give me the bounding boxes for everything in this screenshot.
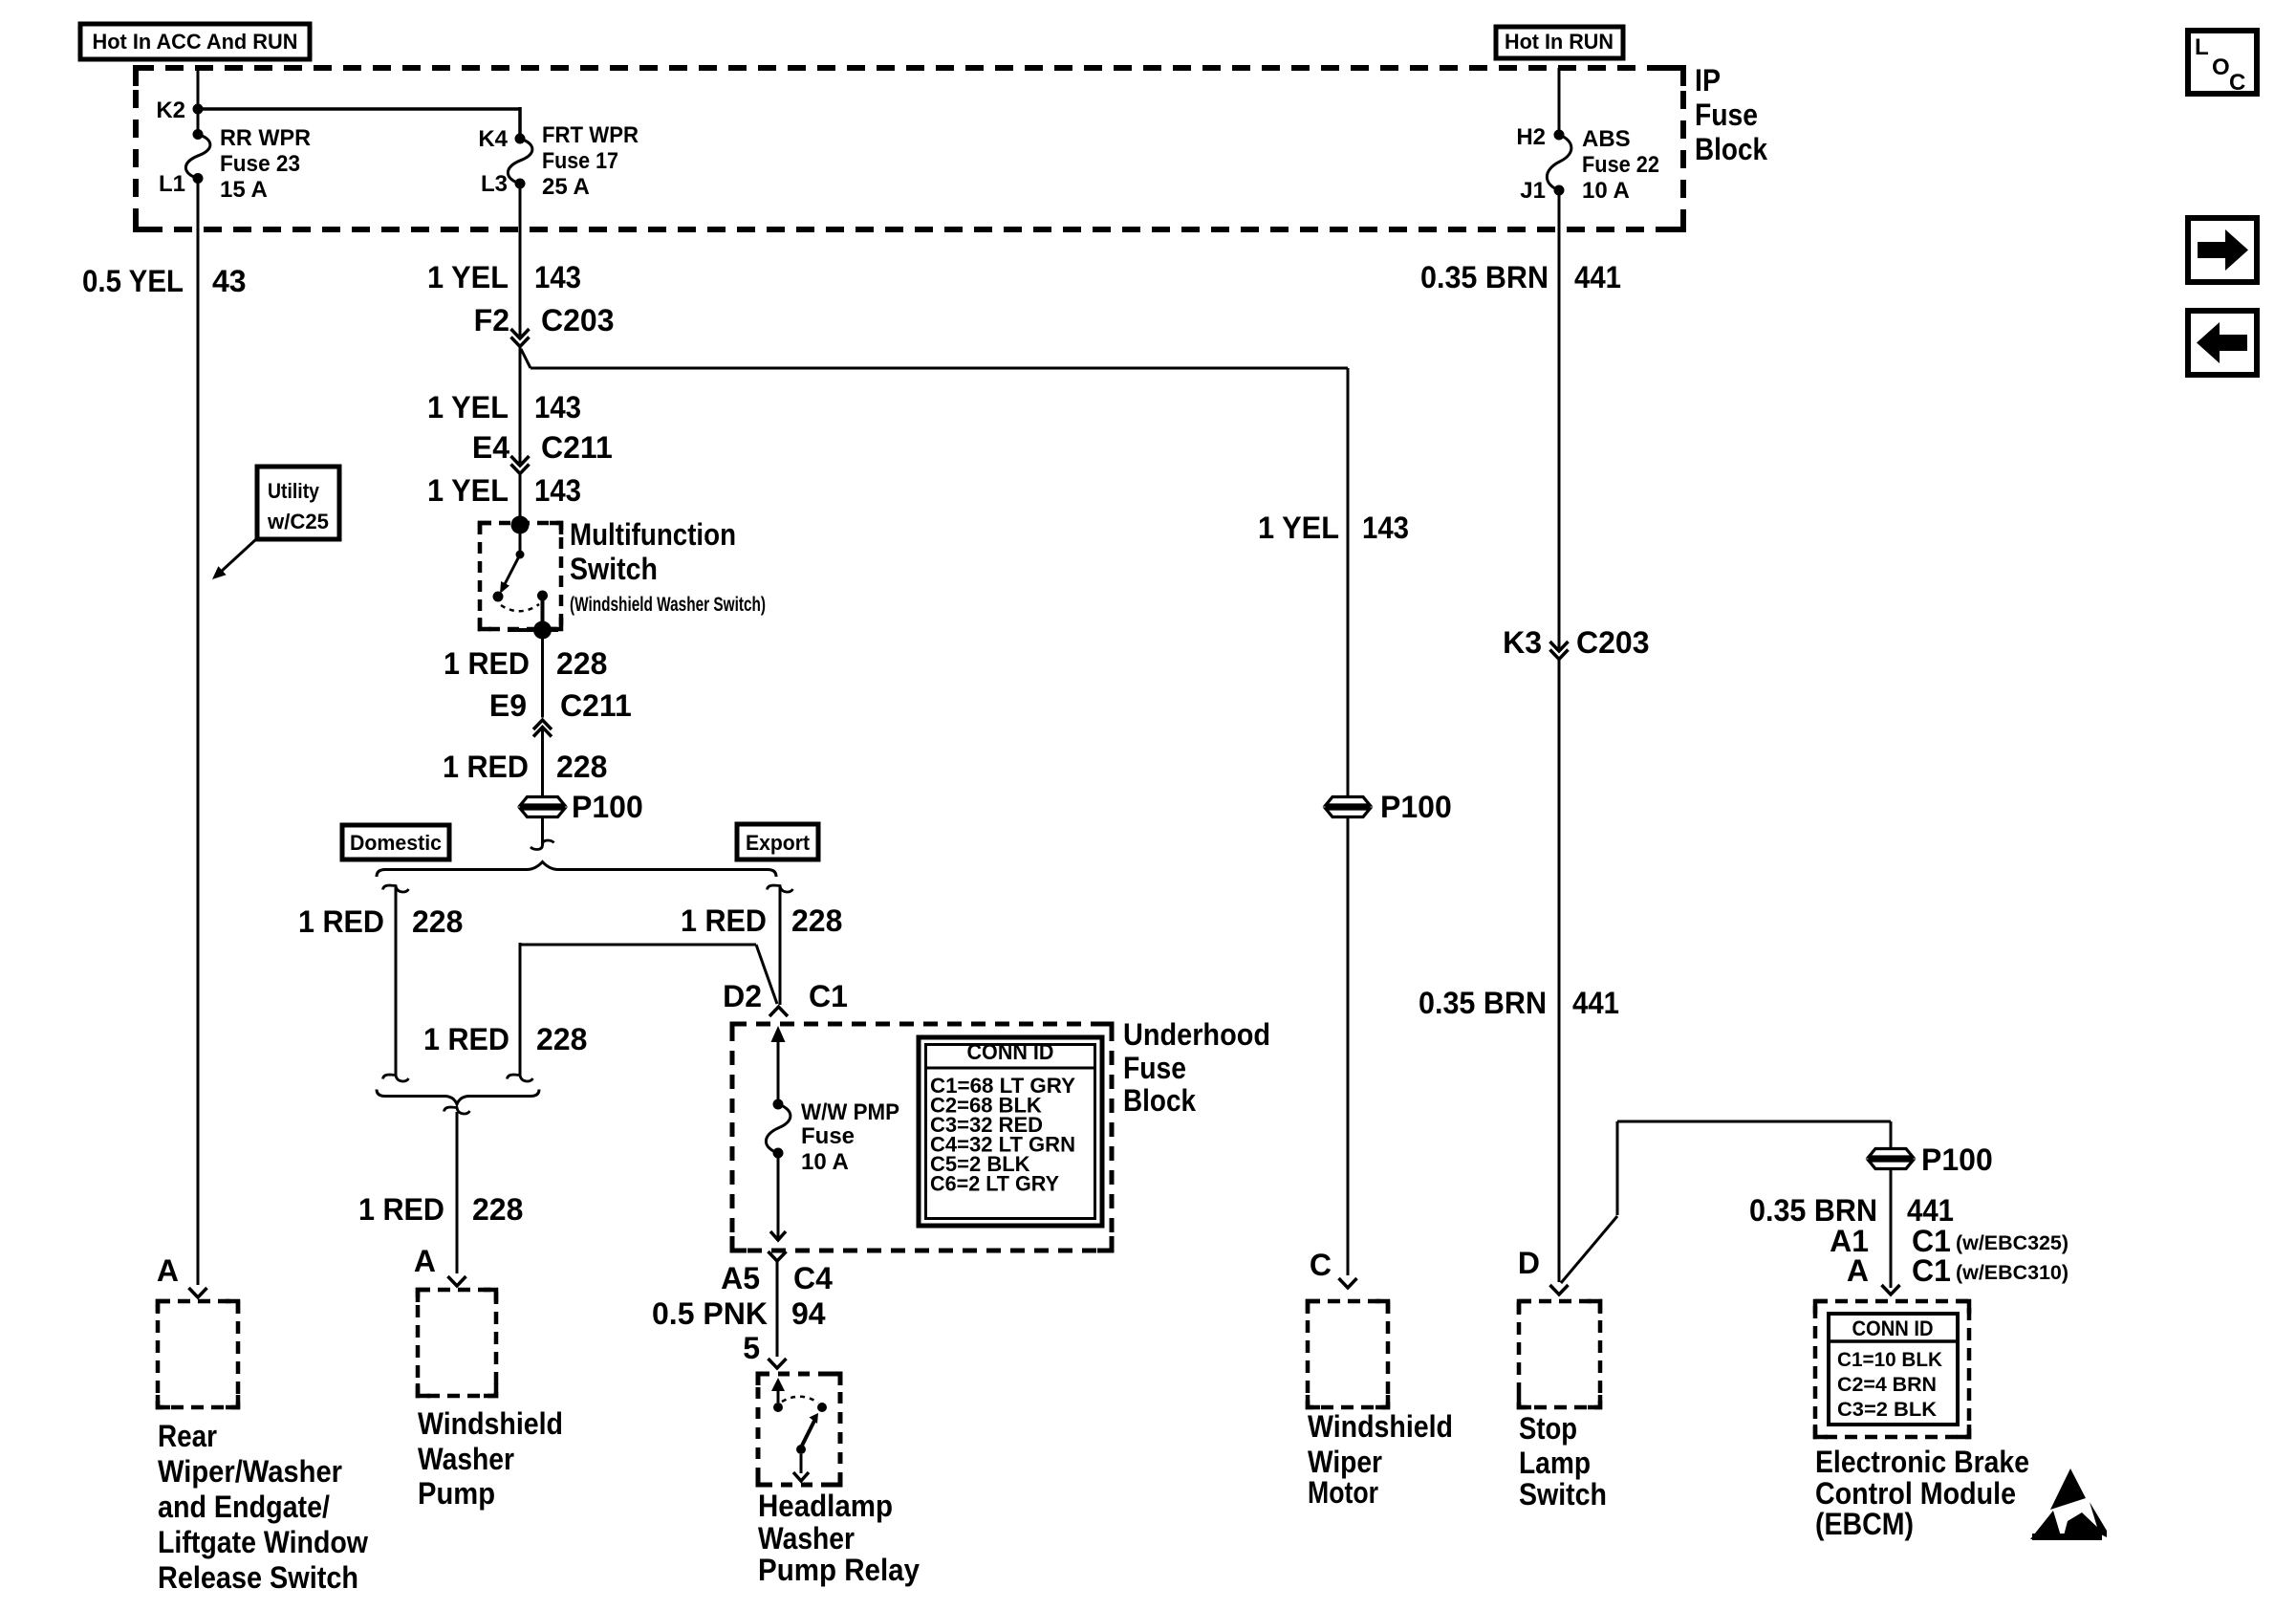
wire: jumper K2 to K4	[198, 107, 520, 111]
wire below P100 with end hook	[541, 817, 544, 845]
svg-text:441: 441	[1907, 1193, 1954, 1228]
grommet P100 on wiper motor feed	[1326, 797, 1370, 806]
wire: 0.5 PNK 94 to headlamp washer pump relay	[776, 1261, 779, 1357]
svg-text:Rear: Rear	[158, 1419, 217, 1453]
wire: 1 RED 228 to grommet P100	[541, 728, 544, 797]
svg-text:0.35 BRN: 0.35 BRN	[1749, 1193, 1877, 1228]
svg-text:E9: E9	[489, 688, 527, 723]
svg-text:Hot In RUN: Hot In RUN	[1505, 30, 1614, 54]
svg-text:Block: Block	[1695, 132, 1767, 166]
legend LOC box	[2188, 31, 2257, 94]
svg-text:1 RED: 1 RED	[681, 903, 767, 938]
relay output wire with down arrow	[800, 1454, 803, 1473]
svg-text:0.35 BRN: 0.35 BRN	[1419, 986, 1547, 1020]
svg-text:10 A: 10 A	[801, 1149, 849, 1175]
svg-text:(w/EBC325): (w/EBC325)	[1956, 1232, 2069, 1254]
svg-text:Wiper/Washer: Wiper/Washer	[158, 1454, 342, 1489]
wire: 1 YEL 143 from L3 down to connector C203	[519, 184, 522, 336]
svg-text:1 YEL: 1 YEL	[427, 260, 509, 294]
svg-text:228: 228	[791, 903, 842, 938]
svg-text:w/C25: w/C25	[267, 510, 329, 533]
svg-text:Headlamp: Headlamp	[758, 1489, 893, 1523]
node K2	[193, 104, 204, 115]
wire: 0.35 BRN 441 to EBCM	[1890, 1169, 1893, 1288]
svg-text:ABS: ABS	[1582, 126, 1631, 152]
svg-text:0.5 YEL: 0.5 YEL	[82, 264, 184, 298]
svg-text:L1: L1	[159, 171, 185, 197]
ESD sensitive device icon	[2050, 1469, 2086, 1510]
switch pole wire	[519, 525, 522, 555]
svg-text:H2: H2	[1516, 124, 1546, 150]
connector chevron into wiper motor	[1339, 1278, 1357, 1288]
wire from fuse to bottom of underhood box	[777, 1153, 780, 1240]
connector chevron into EBCM	[1882, 1285, 1900, 1295]
svg-text:K2: K2	[156, 98, 185, 123]
wire: 1 YEL 143 into multifunction switch	[519, 474, 522, 526]
svg-text:Fuse 22: Fuse 22	[1582, 152, 1659, 178]
relay lower dot	[796, 1445, 806, 1454]
svg-text:Underhood: Underhood	[1123, 1017, 1270, 1052]
multifunction switch dashed box	[480, 523, 561, 629]
switch right contact	[537, 591, 548, 601]
svg-text:P100: P100	[572, 790, 643, 824]
switch arm with arrowhead	[504, 555, 520, 586]
svg-text:K4: K4	[478, 126, 508, 152]
underhood fuse block dashed box	[732, 1024, 1112, 1251]
svg-text:Multifunction: Multifunction	[570, 517, 736, 552]
svg-text:L3: L3	[481, 171, 508, 197]
windshield washer pump dashed box	[418, 1290, 496, 1396]
svg-text:C203: C203	[541, 303, 615, 337]
wire: 0.35 BRN 441 from J1 to connector C203	[1558, 190, 1561, 648]
svg-text:C: C	[1310, 1248, 1332, 1282]
wire: 1 YEL 143 below P100	[1347, 817, 1350, 1275]
option split over-brace	[377, 862, 776, 878]
svg-text:5: 5	[743, 1331, 760, 1365]
svg-text:E4: E4	[472, 430, 509, 465]
legend right arrow box	[2188, 218, 2257, 282]
svg-text:D2: D2	[723, 979, 762, 1013]
grommet P100 on EBCM feed	[1890, 1121, 1893, 1148]
svg-text:RR WPR: RR WPR	[220, 125, 311, 151]
relay left contact dot	[773, 1403, 783, 1412]
svg-text:143: 143	[1362, 511, 1409, 545]
svg-text:C6=2 LT GRY: C6=2 LT GRY	[930, 1172, 1059, 1196]
svg-text:(Windshield Washer Switch): (Windshield Washer Switch)	[570, 594, 766, 616]
svg-text:1 RED: 1 RED	[444, 646, 530, 681]
svg-text:1 RED: 1 RED	[443, 750, 529, 784]
switch input node	[511, 516, 530, 534]
headlamp washer pump relay dashed box	[758, 1374, 840, 1485]
svg-text:143: 143	[534, 390, 581, 424]
svg-text:Electronic Brake: Electronic Brake	[1815, 1445, 2029, 1479]
svg-text:Release Switch: Release Switch	[158, 1560, 358, 1595]
fuse RR WPR Fuse 23 15 A	[193, 129, 204, 140]
svg-text:P100: P100	[1921, 1142, 1993, 1177]
merge under-brace	[377, 1090, 539, 1105]
svg-text:Fuse 17: Fuse 17	[542, 148, 618, 174]
svg-text:1 RED: 1 RED	[423, 1022, 509, 1056]
wire to W/W PMP fuse	[777, 1038, 780, 1104]
legend left arrow box	[2188, 311, 2257, 375]
svg-text:1 RED: 1 RED	[358, 1192, 444, 1227]
svg-text:L: L	[2195, 34, 2209, 60]
svg-text:C2=4 BRN: C2=4 BRN	[1837, 1374, 1937, 1396]
fuse FRT WPR Fuse 17 25 A	[515, 134, 526, 144]
svg-text:Windshield: Windshield	[418, 1406, 563, 1441]
svg-text:Windshield: Windshield	[1308, 1409, 1453, 1444]
svg-text:W/W PMP: W/W PMP	[801, 1099, 899, 1125]
svg-text:A: A	[414, 1244, 436, 1278]
connector chevron into washer pump	[448, 1276, 466, 1286]
svg-text:(EBCM): (EBCM)	[1815, 1507, 1914, 1541]
svg-text:1 YEL: 1 YEL	[427, 473, 509, 508]
rear wiper/washer switch dashed box	[158, 1301, 238, 1407]
svg-text:Motor: Motor	[1308, 1475, 1378, 1510]
svg-text:228: 228	[412, 904, 463, 939]
svg-text:Domestic: Domestic	[350, 831, 442, 855]
svg-text:Fuse: Fuse	[1695, 98, 1758, 132]
svg-text:P100: P100	[1380, 790, 1452, 824]
EBCM dashed box	[1815, 1301, 1969, 1437]
svg-text:Fuse: Fuse	[1123, 1051, 1186, 1085]
svg-text:Utility: Utility	[268, 479, 320, 503]
fuse W/W PMP Fuse 10 A	[773, 1099, 784, 1110]
wire: branch to windshield wiper motor	[521, 349, 531, 368]
svg-text:Washer: Washer	[758, 1521, 855, 1556]
wire: 1 RED 228 to windshield washer pump	[456, 1112, 459, 1273]
svg-text:228: 228	[536, 1022, 587, 1056]
arrow from Utility w/C25 box	[221, 539, 256, 572]
svg-text:15 A: 15 A	[220, 177, 268, 203]
option label box Export	[737, 824, 818, 859]
relay wiper dashed arc	[782, 1397, 818, 1403]
svg-text:441: 441	[1574, 260, 1621, 294]
svg-text:A: A	[1847, 1253, 1869, 1288]
svg-text:C211: C211	[541, 430, 613, 465]
svg-text:C4: C4	[793, 1261, 833, 1295]
svg-text:O: O	[2212, 54, 2230, 80]
svg-text:43: 43	[212, 264, 247, 298]
svg-text:25 A: 25 A	[542, 174, 590, 200]
connector chevron into rear wiper switch	[189, 1288, 207, 1297]
svg-text:1 RED: 1 RED	[298, 904, 384, 939]
svg-text:Washer: Washer	[418, 1442, 514, 1476]
svg-text:FRT WPR: FRT WPR	[542, 122, 639, 148]
option label box Domestic	[342, 825, 449, 859]
svg-text:K3: K3	[1503, 625, 1542, 660]
CONN ID table of underhood fuse block	[919, 1037, 1102, 1226]
stop lamp switch dashed box	[1519, 1301, 1600, 1407]
wire: Domestic branch 1 RED 228	[383, 885, 409, 892]
svg-text:Switch: Switch	[1519, 1477, 1607, 1512]
wire: 0.5 YEL 43 from L1 down to Rear Wiper/Washer switch	[197, 178, 200, 1285]
svg-text:0.35 BRN: 0.35 BRN	[1420, 260, 1549, 294]
svg-text:C1: C1	[809, 979, 848, 1013]
svg-text:Liftgate Window: Liftgate Window	[158, 1525, 368, 1559]
wire: feed from Hot In RUN into fuse block at H2	[1558, 68, 1561, 135]
wire: branch from stop lamp feed to EBCM	[1616, 1121, 1619, 1215]
svg-text:10 A: 10 A	[1582, 178, 1630, 204]
svg-text:Pump Relay: Pump Relay	[758, 1553, 920, 1587]
svg-text:J1: J1	[1520, 178, 1546, 204]
svg-text:D: D	[1518, 1246, 1540, 1280]
relay coil entry arrow	[771, 1378, 785, 1391]
svg-text:C: C	[2229, 70, 2245, 96]
svg-text:441: 441	[1572, 986, 1619, 1020]
svg-text:C203: C203	[1576, 625, 1650, 660]
svg-text:Stop: Stop	[1519, 1411, 1577, 1446]
svg-text:CONN ID: CONN ID	[1852, 1316, 1934, 1340]
svg-text:Lamp: Lamp	[1519, 1446, 1591, 1480]
svg-text:CONN ID: CONN ID	[967, 1039, 1054, 1064]
switch output junction dot	[533, 621, 552, 640]
relay right contact dot	[817, 1403, 827, 1412]
svg-text:Hot In ACC And RUN: Hot In ACC And RUN	[93, 30, 298, 54]
fuse ABS Fuse 22 10 A	[1554, 130, 1565, 141]
svg-text:(w/EBC310): (w/EBC310)	[1956, 1262, 2069, 1284]
svg-text:C211: C211	[560, 688, 632, 723]
svg-text:C1=10 BLK: C1=10 BLK	[1837, 1349, 1942, 1371]
svg-text:143: 143	[534, 473, 581, 508]
svg-text:F2: F2	[474, 303, 509, 337]
connector chevron into stop lamp switch	[1550, 1285, 1569, 1295]
svg-text:Block: Block	[1123, 1083, 1196, 1118]
svg-text:228: 228	[556, 750, 607, 784]
wire: 1 YEL 143 down to windshield wiper motor	[1347, 368, 1350, 796]
svg-text:Export: Export	[746, 831, 811, 855]
IP Fuse Block dashed box	[136, 68, 1683, 229]
switch wiper dashed arc	[501, 604, 539, 611]
wire: crossover from Export branch to washer pump feed	[520, 944, 756, 946]
svg-text:A: A	[157, 1253, 179, 1288]
CONN ID table of EBCM	[1829, 1314, 1958, 1425]
power label box: Hot In ACC And RUN	[80, 24, 310, 59]
wire: 1 YEL 143 between C203 and C211	[519, 347, 522, 464]
option label box Utility w/C25	[257, 467, 339, 539]
svg-text:228: 228	[556, 646, 607, 681]
svg-text:94: 94	[791, 1296, 826, 1331]
svg-text:Switch: Switch	[570, 552, 658, 586]
svg-text:143: 143	[534, 260, 581, 294]
wire: 0.35 BRN 441 to stop lamp switch	[1558, 660, 1561, 1283]
svg-text:Fuse: Fuse	[801, 1123, 855, 1149]
wire: feed from Hot In ACC into fuse block at K2	[197, 68, 200, 134]
wire from right contact to output junction	[541, 596, 545, 630]
power label box: Hot In RUN	[1496, 27, 1623, 58]
grommet P100	[521, 797, 565, 806]
svg-text:1 YEL: 1 YEL	[427, 390, 509, 424]
svg-text:A5: A5	[721, 1261, 760, 1295]
relay arm with arrowhead	[802, 1421, 814, 1446]
svg-text:Control Module: Control Module	[1815, 1476, 2016, 1511]
wire: 1 RED 228 from switch to connector C211	[541, 630, 544, 718]
svg-text:Pump: Pump	[418, 1476, 495, 1511]
svg-text:1 YEL: 1 YEL	[1258, 511, 1339, 545]
svg-text:Wiper: Wiper	[1308, 1445, 1382, 1479]
svg-text:228: 228	[472, 1192, 523, 1227]
svg-text:C3=2 BLK: C3=2 BLK	[1837, 1399, 1937, 1421]
entry arrow inside underhood box	[771, 1026, 786, 1042]
svg-text:Fuse 23: Fuse 23	[220, 151, 300, 177]
wire: Export branch 1 RED 228	[768, 885, 793, 892]
switch pole dot	[516, 551, 525, 559]
svg-text:0.5 PNK: 0.5 PNK	[652, 1296, 768, 1331]
svg-text:C1: C1	[1912, 1253, 1951, 1288]
windshield wiper motor dashed box	[1308, 1301, 1388, 1407]
svg-text:and Endgate/: and Endgate/	[158, 1490, 330, 1524]
switch left contact	[493, 592, 504, 602]
svg-text:IP: IP	[1695, 63, 1721, 98]
